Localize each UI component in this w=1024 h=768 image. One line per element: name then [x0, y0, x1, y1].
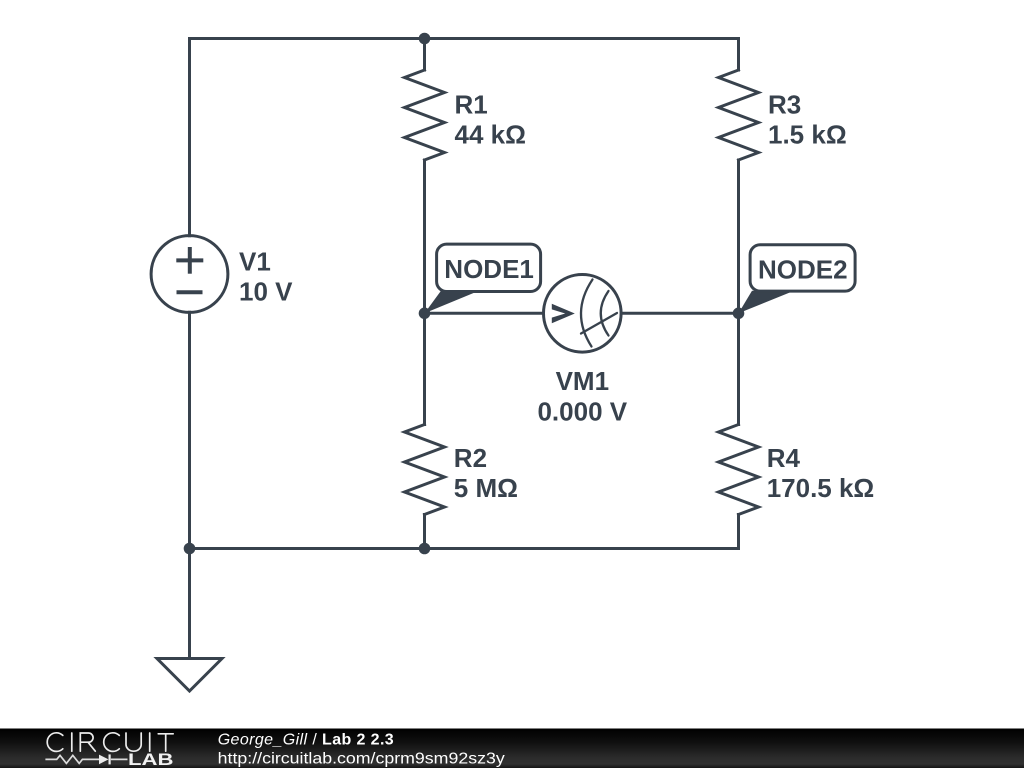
node NODE2 callout box [750, 245, 855, 291]
svg-text:NODE2: NODE2 [758, 254, 848, 284]
voltmeter dial arc small [601, 291, 609, 336]
V1 plus sign [176, 247, 203, 292]
ground wire [188, 549, 191, 659]
wire R4 to bottom rail [737, 515, 740, 549]
wire NODE2 to R4 [737, 313, 740, 424]
wire voltmeter to NODE2 [623, 312, 739, 315]
V1 minus sign [177, 290, 203, 294]
wire bottom rail [190, 547, 739, 550]
svg-text:5 MΩ: 5 MΩ [454, 473, 518, 503]
wire R1 to NODE1 [423, 160, 426, 313]
voltage source V1 circle [151, 236, 228, 313]
svg-text:44 kΩ: 44 kΩ [455, 120, 526, 150]
svg-text:NODE1: NODE1 [444, 254, 534, 284]
logo diode cathode bar [109, 754, 111, 764]
resistor R4 [719, 425, 759, 515]
wire left bottom (V1 minus terminal to bottom rail) [188, 312, 191, 548]
wire R2 to bottom rail [423, 515, 426, 549]
logo diode triangle [99, 755, 109, 765]
node NODE2 junction [733, 308, 745, 320]
wire left top (top rail to V1 plus terminal) [188, 39, 191, 236]
resistor R1 [405, 70, 445, 160]
resistor R3 [719, 70, 759, 160]
svg-text:R1: R1 [455, 90, 488, 120]
svg-text:170.5 kΩ: 170.5 kΩ [767, 473, 875, 503]
voltmeter dial arc large [581, 280, 593, 347]
wire mid column top (top rail to R1) [423, 39, 426, 71]
logo wire after diode [111, 758, 128, 760]
wire NODE1 to R2 [423, 313, 426, 424]
svg-text:LAB: LAB [128, 750, 174, 768]
voltmeter arrow mark [552, 304, 575, 324]
svg-text:http://circuitlab.com/cprm9sm9: http://circuitlab.com/cprm9sm92sz3y [218, 751, 505, 768]
node junction bottom left [184, 543, 196, 555]
node junction top mid [419, 33, 431, 45]
svg-text:R3: R3 [768, 90, 801, 120]
node NODE1 callout box [437, 244, 541, 291]
ground triangle [157, 659, 222, 692]
node junction bottom mid [419, 543, 431, 555]
svg-text:0.000 V: 0.000 V [537, 396, 627, 426]
svg-text:10 V: 10 V [239, 276, 293, 306]
svg-text:George_Gill / Lab 2 2.3: George_Gill / Lab 2 2.3 [218, 731, 394, 748]
voltmeter VM1 circle [544, 275, 622, 353]
wire right column top (top rail to R3) [737, 39, 740, 71]
resistor R2 [405, 425, 445, 515]
node NODE1 callout tail [425, 291, 480, 314]
logo CIRCUIT hand-drawn thin letters [47, 733, 173, 752]
svg-text:VM1: VM1 [556, 366, 609, 396]
wire NODE1 to voltmeter [425, 312, 543, 315]
svg-text:R2: R2 [454, 443, 487, 473]
svg-text:R4: R4 [767, 443, 801, 473]
node NODE2 callout tail [739, 291, 792, 314]
logo resistor squiggle [45, 755, 99, 763]
voltmeter needle [581, 313, 617, 334]
node NODE1 junction [419, 308, 431, 320]
svg-text:V1: V1 [239, 246, 271, 276]
wire R3 to NODE2 [737, 160, 740, 313]
wire top rail [190, 37, 739, 40]
svg-text:1.5 kΩ: 1.5 kΩ [768, 120, 847, 150]
